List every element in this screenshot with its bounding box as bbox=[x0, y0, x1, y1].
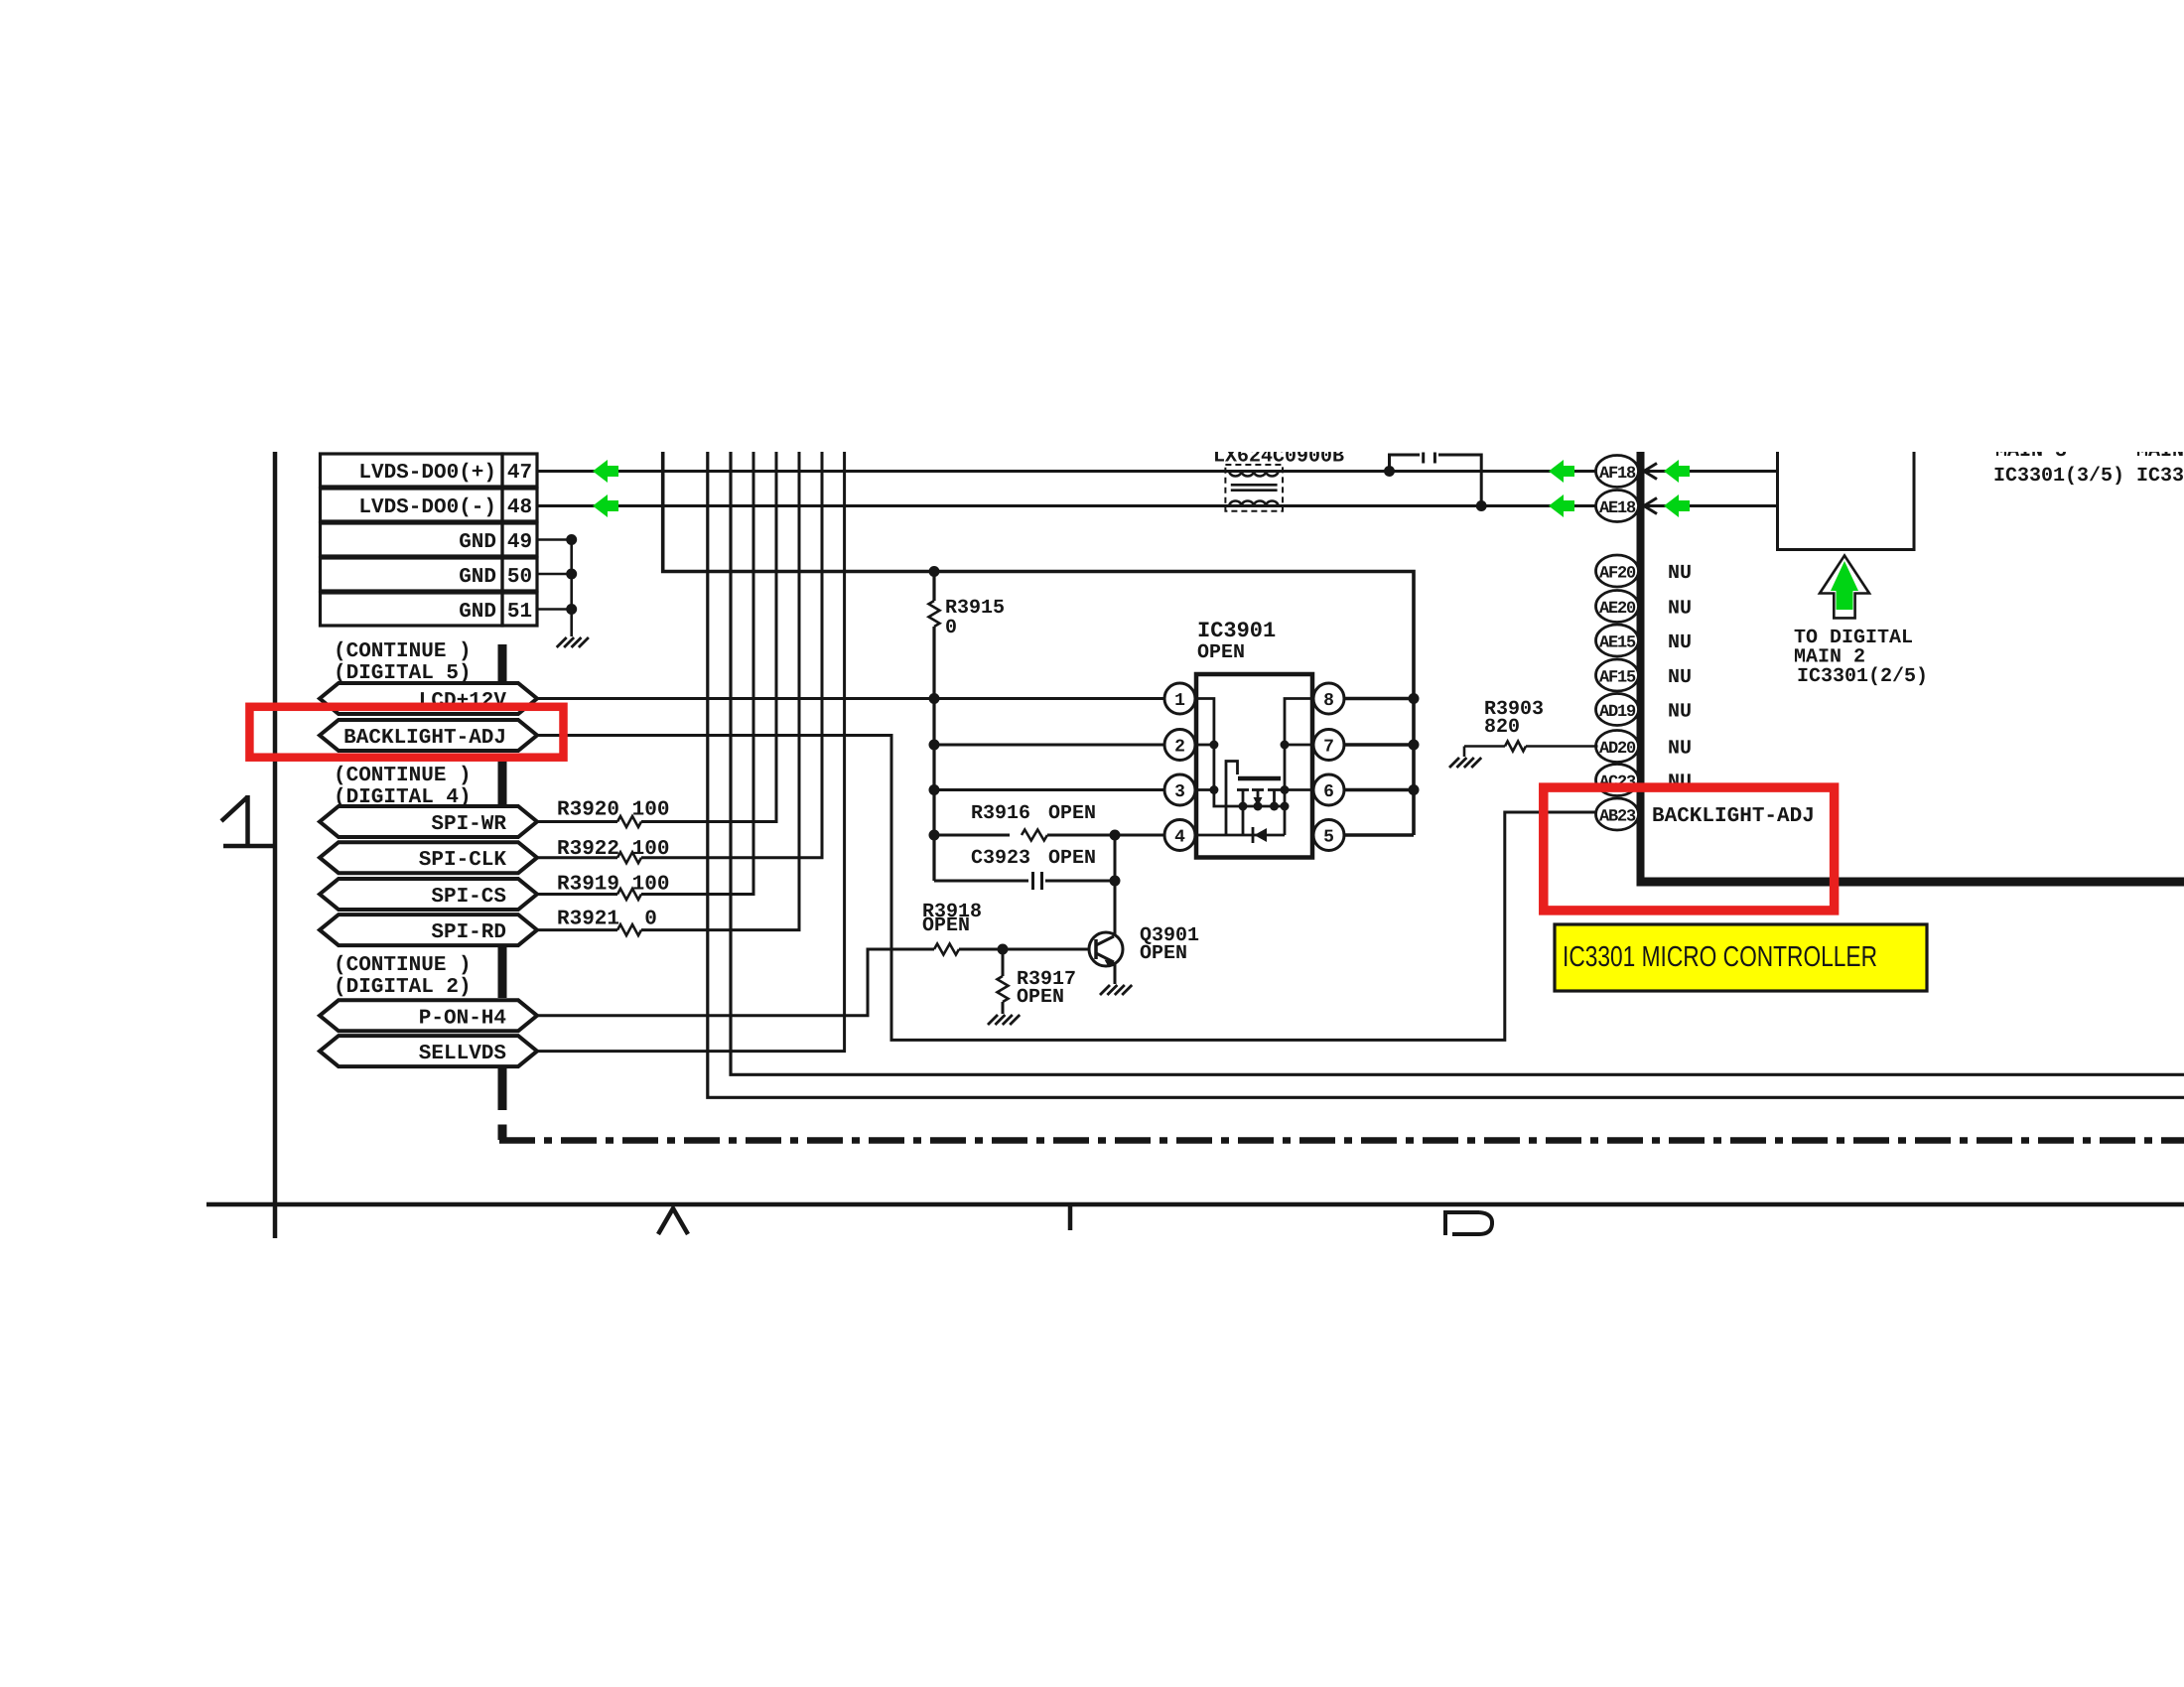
connector row 51 number box bbox=[502, 593, 537, 626]
green arrow AE18 left bbox=[1549, 494, 1574, 517]
svg-text:NU: NU bbox=[1668, 738, 1692, 761]
junction GND 51 bbox=[566, 604, 577, 615]
wire riser SPI-CS bbox=[641, 452, 753, 895]
svg-text:IC3301 MICRO CONTROLLER: IC3301 MICRO CONTROLLER bbox=[1563, 941, 1877, 973]
arrowhead AF18 bbox=[1644, 464, 1657, 480]
wire left bus upper bbox=[932, 572, 935, 602]
pin 4 bbox=[1164, 820, 1195, 851]
choke LX624C0900B box bbox=[1225, 465, 1283, 511]
wire R3917 to ground bbox=[1002, 1002, 1005, 1014]
IC3901 inner junction pin3 bbox=[1209, 785, 1218, 794]
svg-text:5: 5 bbox=[1323, 828, 1334, 848]
choke bottom winding bbox=[1229, 500, 1278, 505]
wire LVDS-DO0(+) row47 bbox=[537, 470, 1598, 473]
svg-text:AF15: AF15 bbox=[1599, 669, 1636, 688]
wire pin7 to bus bbox=[1345, 743, 1415, 747]
pin AF18 bbox=[1596, 456, 1639, 488]
green arrow AF18 left bbox=[1549, 460, 1574, 483]
top clip whiteout bbox=[0, 0, 2184, 452]
wire P-ON-H4 net bbox=[537, 949, 934, 1016]
svg-text:R3922 100: R3922 100 bbox=[557, 838, 669, 861]
pin 7 bbox=[1313, 730, 1344, 761]
wire SPI-CLK to R3922 bbox=[537, 856, 617, 859]
ground (Q3901 emitter) bbox=[1100, 985, 1110, 995]
pin 2 bbox=[1164, 730, 1195, 761]
wire pin5 to bus bbox=[1345, 833, 1415, 837]
junction pin4 wire bbox=[929, 830, 940, 841]
wire GND 51 stub bbox=[537, 608, 572, 611]
IC3301 upper tab box bbox=[1778, 452, 1915, 550]
sheet border left bbox=[273, 452, 278, 1238]
wire left bus lower bbox=[932, 627, 935, 881]
resistor R3903 bbox=[1505, 742, 1526, 752]
sheet border bottom bbox=[206, 1202, 2184, 1207]
resistor R3917 bbox=[998, 976, 1009, 1002]
svg-text:50: 50 bbox=[507, 566, 532, 589]
svg-text:4: 4 bbox=[1174, 828, 1185, 848]
green arrow AE18 right bbox=[1664, 494, 1690, 517]
connector row 49 number box bbox=[502, 523, 537, 556]
pin 3 bbox=[1164, 774, 1195, 805]
node P-ON-H4 flag bbox=[320, 1000, 537, 1031]
pin 8 bbox=[1313, 683, 1344, 714]
wire R3918 left bbox=[868, 948, 934, 951]
resistor R3921 bbox=[617, 924, 641, 935]
IC3301 block bottom edge bbox=[1637, 878, 2184, 887]
node SELLVDS flag bbox=[320, 1036, 537, 1066]
svg-text:AE15: AE15 bbox=[1599, 634, 1636, 653]
wire LCD+12V to IC3901 pin1 bbox=[537, 697, 1164, 700]
svg-text:2: 2 bbox=[1174, 738, 1185, 758]
wire bus to R3916 bbox=[934, 834, 1010, 837]
continue bus segment 2 bbox=[498, 760, 507, 807]
pin AC23 bbox=[1596, 765, 1639, 796]
junction C3923/collector bbox=[1110, 876, 1121, 887]
junction bridge row47 bbox=[1384, 466, 1395, 477]
pin AF20 bbox=[1596, 555, 1639, 587]
wire riser SPI-CLK bbox=[641, 452, 822, 858]
connector row 51 name box bbox=[321, 593, 503, 626]
wire riser B bbox=[708, 452, 2184, 1097]
resistor R3919 bbox=[617, 889, 641, 900]
IC3901 inner stub pin3 bbox=[1198, 788, 1214, 791]
wire ground to R3903 bbox=[1464, 745, 1505, 748]
svg-text:IC3901: IC3901 bbox=[1197, 619, 1276, 643]
wire C3923 left bbox=[934, 880, 1028, 883]
green arrow AF18 right bbox=[1664, 460, 1690, 483]
svg-text:OPEN: OPEN bbox=[1197, 641, 1245, 664]
junction GND 50 bbox=[566, 569, 577, 580]
IC3901 inner right bus bbox=[1285, 699, 1310, 836]
continue bus segment 1 bbox=[498, 644, 507, 683]
svg-text:OPEN: OPEN bbox=[1048, 802, 1096, 825]
node SPI-CLK flag bbox=[320, 842, 537, 873]
wire GND 49 stub bbox=[537, 538, 572, 541]
pin AD19 bbox=[1596, 694, 1639, 726]
svg-text:SPI-CLK: SPI-CLK bbox=[419, 849, 507, 872]
node SPI-WR flag bbox=[320, 806, 537, 837]
wire R3903 ground stub bbox=[1463, 747, 1466, 758]
connector row 47 name box bbox=[321, 454, 503, 487]
pin AD20 bbox=[1596, 731, 1639, 763]
IC3901 inner junction pin6 bbox=[1281, 785, 1290, 794]
wire SPI-CS to R3919 bbox=[537, 893, 617, 896]
svg-text:SPI-WR: SPI-WR bbox=[431, 813, 506, 836]
pin 5 bbox=[1313, 820, 1344, 851]
pin 6 bbox=[1313, 774, 1344, 805]
junction body/bottom bbox=[1254, 802, 1263, 811]
svg-text:AD19: AD19 bbox=[1599, 703, 1636, 722]
svg-text:P-ON-H4: P-ON-H4 bbox=[419, 1007, 506, 1030]
wire riser C bbox=[731, 452, 2184, 1074]
junction source/bottom bbox=[1239, 802, 1248, 811]
wire R3918 to base bbox=[959, 948, 1094, 951]
IC3901 inner stub pin2 bbox=[1198, 744, 1214, 747]
svg-text:OPEN: OPEN bbox=[1048, 847, 1096, 870]
arrowhead AE18 bbox=[1644, 498, 1657, 514]
svg-text:IC3301(3/5) IC33: IC3301(3/5) IC33 bbox=[1993, 465, 2184, 488]
pin AE18 bbox=[1596, 491, 1639, 522]
junction pin4/collector bbox=[1110, 830, 1121, 841]
svg-text:(CONTINUE ): (CONTINUE ) bbox=[334, 954, 472, 977]
svg-text:R3919 100: R3919 100 bbox=[557, 874, 669, 897]
IC3901 inner junction pin7 bbox=[1281, 741, 1290, 750]
bridge capacitor plates bbox=[1422, 453, 1425, 464]
node BACKLIGHT-ADJ flag bbox=[320, 720, 537, 751]
svg-text:0: 0 bbox=[945, 617, 957, 639]
svg-text:NU: NU bbox=[1668, 562, 1692, 585]
capacitor bridge across pair bbox=[1390, 455, 1482, 506]
connector row 50 name box bbox=[321, 558, 503, 591]
svg-text:NU: NU bbox=[1668, 666, 1692, 689]
wire collector vertical bbox=[1114, 835, 1117, 936]
svg-text:(DIGITAL 2): (DIGITAL 2) bbox=[334, 976, 472, 999]
pin AE15 bbox=[1596, 625, 1639, 656]
resistor R3915 bbox=[929, 601, 940, 627]
junction bridge row48 bbox=[1476, 500, 1487, 511]
svg-text:1: 1 bbox=[1174, 691, 1185, 711]
svg-text:(CONTINUE ): (CONTINUE ) bbox=[334, 640, 472, 663]
svg-text:C3923: C3923 bbox=[971, 847, 1030, 870]
svg-text:OPEN: OPEN bbox=[922, 914, 970, 937]
mosfet drain contact bbox=[1273, 790, 1276, 807]
connector row 48 name box bbox=[321, 489, 503, 521]
wire riser SPI-RD bbox=[641, 452, 799, 930]
svg-text:R3916: R3916 bbox=[971, 802, 1030, 825]
junction top rail bbox=[929, 566, 940, 577]
choke top winding bbox=[1229, 472, 1278, 477]
wire base node down bbox=[1002, 949, 1005, 976]
transistor gate lead bbox=[1198, 762, 1238, 836]
wire GND 50 stub bbox=[537, 573, 572, 576]
choke core bbox=[1231, 484, 1278, 487]
junction GND 49 bbox=[566, 534, 577, 545]
wire riser SELLVDS bbox=[537, 452, 845, 1052]
junction pin1 wire bbox=[929, 693, 940, 704]
svg-text:AE18: AE18 bbox=[1599, 499, 1636, 518]
svg-text:LVDS-DO0(+): LVDS-DO0(+) bbox=[358, 462, 496, 485]
connector row 50 number box bbox=[502, 558, 537, 591]
ground (connector GND) bbox=[557, 637, 567, 647]
svg-text:BACKLIGHT-ADJ: BACKLIGHT-ADJ bbox=[343, 727, 506, 750]
junction right inner bbox=[1281, 802, 1290, 811]
dash-dot border bbox=[499, 1137, 2184, 1144]
wire SPI-WR to R3920 bbox=[537, 820, 617, 823]
transistor gate bar bbox=[1238, 776, 1281, 781]
junction pin6 bus bbox=[1409, 784, 1420, 795]
svg-text:51: 51 bbox=[507, 601, 532, 624]
wire pin8 to bus bbox=[1345, 697, 1415, 701]
mosfet body arrow bbox=[1257, 790, 1260, 800]
wire LVDS-DO0(-) row48 bbox=[537, 504, 1598, 507]
wire BACKLIGHT-ADJ net bbox=[537, 736, 1598, 1041]
IC3901 inner stub pin6 bbox=[1285, 788, 1310, 791]
wire emitter down bbox=[1114, 962, 1117, 984]
pin AE20 bbox=[1596, 591, 1639, 623]
continue bus segment 4 bbox=[498, 1066, 507, 1111]
green arrow row48 left bbox=[593, 494, 618, 517]
body diode bbox=[1252, 827, 1255, 843]
svg-text:NU: NU bbox=[1668, 632, 1692, 654]
green arrow row47 left bbox=[593, 460, 618, 483]
zone letter A (clipped) bbox=[658, 1208, 688, 1234]
wire GND vertical bbox=[570, 540, 573, 637]
red highlight box (AB23) bbox=[1544, 787, 1835, 911]
mosfet source contact bbox=[1242, 790, 1245, 836]
wire bus to pin3 bbox=[934, 788, 1164, 791]
junction pin8 bus bbox=[1409, 693, 1420, 704]
pin AB23 bbox=[1596, 798, 1639, 830]
node LCD+12V flag bbox=[320, 683, 537, 714]
svg-text:SPI-RD: SPI-RD bbox=[431, 921, 506, 944]
svg-text:SELLVDS: SELLVDS bbox=[419, 1043, 506, 1065]
svg-text:GND: GND bbox=[459, 566, 496, 589]
svg-text:NU: NU bbox=[1668, 701, 1692, 724]
ground (R3903) bbox=[1449, 758, 1459, 768]
svg-text:LVDS-DO0(-): LVDS-DO0(-) bbox=[358, 496, 496, 519]
zone letter B (clipped) bbox=[1443, 1210, 1492, 1235]
svg-text:48: 48 bbox=[507, 496, 532, 519]
svg-text:AE20: AE20 bbox=[1599, 600, 1636, 619]
capacitor C3923 bbox=[1031, 872, 1034, 890]
pin AF15 bbox=[1596, 659, 1639, 691]
svg-text:GND: GND bbox=[459, 531, 496, 554]
wire riser/top rail to IC3901 bbox=[663, 452, 1414, 835]
wire riser SPI-WR bbox=[641, 452, 776, 822]
svg-text:NU: NU bbox=[1668, 598, 1692, 621]
svg-text:6: 6 bbox=[1323, 782, 1334, 802]
resistor R3920 bbox=[617, 816, 641, 827]
node SPI-RD flag bbox=[320, 914, 537, 945]
zone number 1 bbox=[221, 795, 275, 846]
to-digital hollow arrow bbox=[1820, 556, 1869, 619]
IC3901 inner stub pin7 bbox=[1285, 744, 1310, 747]
junction pin3 wire bbox=[929, 784, 940, 795]
svg-text:(CONTINUE ): (CONTINUE ) bbox=[334, 765, 472, 787]
resistor R3922 bbox=[617, 852, 641, 863]
svg-text:7: 7 bbox=[1323, 738, 1334, 758]
wire bus to pin2 bbox=[934, 744, 1164, 747]
junction drain/bottom bbox=[1270, 802, 1279, 811]
svg-text:OPEN: OPEN bbox=[1017, 986, 1064, 1009]
svg-text:GND: GND bbox=[459, 601, 496, 624]
svg-text:49: 49 bbox=[507, 531, 532, 554]
wire pin6 to bus bbox=[1345, 788, 1415, 792]
svg-text:47: 47 bbox=[507, 462, 532, 485]
zone tick divider bbox=[1068, 1204, 1073, 1230]
svg-text:BACKLIGHT-ADJ: BACKLIGHT-ADJ bbox=[1652, 805, 1815, 828]
node SPI-CS flag bbox=[320, 879, 537, 910]
mosfet channel dashes bbox=[1237, 788, 1249, 791]
junction pin7 bus bbox=[1409, 740, 1420, 751]
body diode row bbox=[1226, 834, 1285, 837]
svg-text:3: 3 bbox=[1174, 782, 1185, 802]
connector row 47 number box bbox=[502, 454, 537, 487]
callout IC3301 MICRO CONTROLLER bbox=[1555, 924, 1927, 991]
transistor Q3901 bbox=[1089, 932, 1123, 966]
svg-text:AF18: AF18 bbox=[1599, 465, 1636, 484]
svg-text:OPEN: OPEN bbox=[1140, 942, 1187, 965]
svg-text:AF20: AF20 bbox=[1599, 565, 1636, 584]
wire AF18 to tab bbox=[1645, 470, 1778, 473]
connector row 48 number box bbox=[502, 489, 537, 521]
to-digital green arrow bbox=[1831, 561, 1858, 610]
pin 1 bbox=[1164, 683, 1195, 714]
wire SPI-RD to R3921 bbox=[537, 928, 617, 931]
resistor R3918 bbox=[934, 944, 959, 955]
connector row 49 name box bbox=[321, 523, 503, 556]
svg-text:R3921 0: R3921 0 bbox=[557, 909, 657, 931]
wire AE18 to tab bbox=[1645, 504, 1778, 507]
continue bus segment 3 bbox=[498, 945, 507, 999]
wire C3923 right bbox=[1045, 880, 1115, 883]
op-amp U IC3901 body bbox=[1196, 674, 1312, 858]
svg-text:R3920 100: R3920 100 bbox=[557, 799, 669, 822]
ground (R3917) bbox=[988, 1015, 998, 1025]
junction pin2 wire bbox=[929, 740, 940, 751]
wire R3903 to AD20 bbox=[1526, 745, 1598, 748]
resistor R3916 bbox=[1022, 830, 1047, 841]
IC3901 inner left bus bbox=[1198, 699, 1285, 807]
svg-text:820: 820 bbox=[1484, 716, 1520, 739]
continue bus segment 5 bbox=[498, 1125, 507, 1141]
IC3901 inner junction pin2 bbox=[1209, 741, 1218, 750]
junction base node bbox=[998, 944, 1009, 955]
svg-text:8: 8 bbox=[1323, 691, 1334, 711]
svg-text:AB23: AB23 bbox=[1599, 808, 1636, 827]
red highlight box (BACKLIGHT-ADJ flag) bbox=[249, 707, 563, 758]
svg-text:SPI-CS: SPI-CS bbox=[431, 886, 506, 909]
IC3301 block left bus bbox=[1637, 452, 1645, 882]
svg-text:IC3301(2/5): IC3301(2/5) bbox=[1797, 665, 1928, 688]
svg-text:AD20: AD20 bbox=[1599, 740, 1636, 759]
wire R3916 to pin4 bbox=[1047, 834, 1164, 837]
